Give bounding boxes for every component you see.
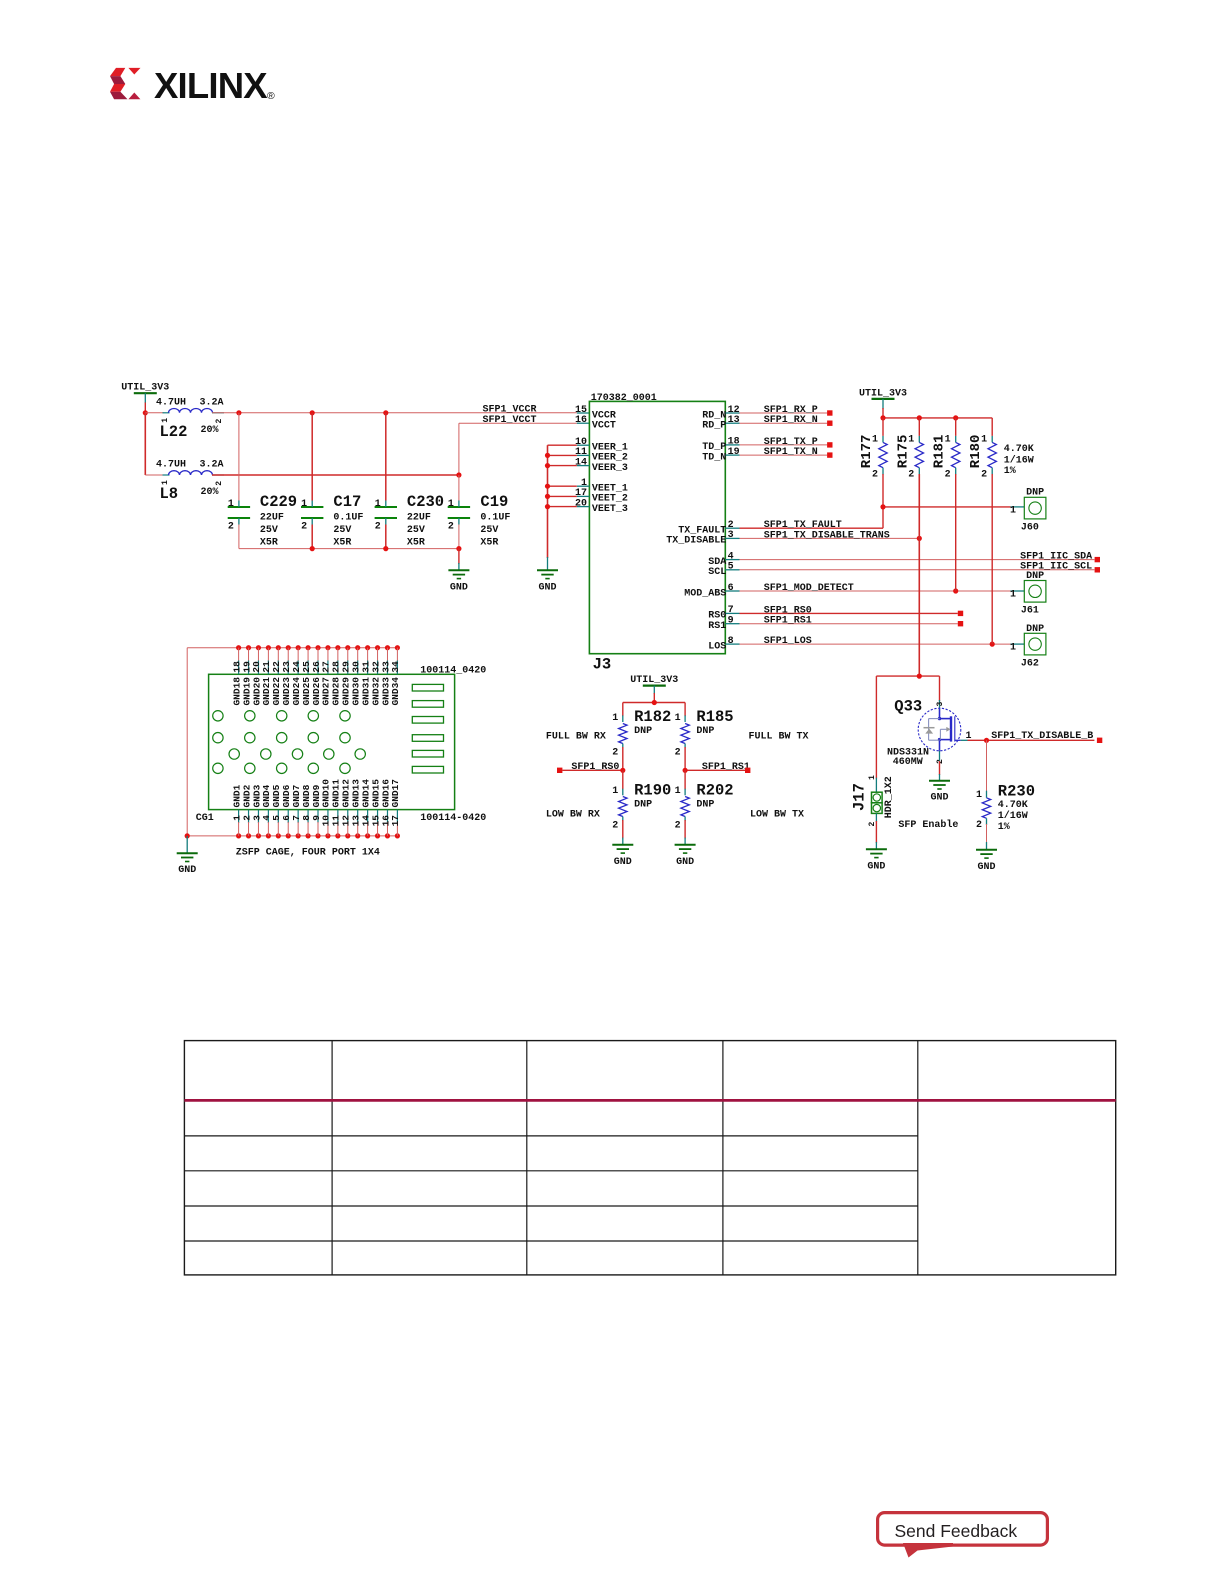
svg-text:J62: J62 [1021,658,1039,669]
wire net SFP1_LOS [740,636,1011,647]
svg-text:HDR_1X2: HDR_1X2 [884,776,895,818]
svg-text:2: 2 [675,821,681,832]
inductor L22 [145,398,224,442]
resistor R177 [859,418,887,481]
connector J62 (DNP) [1010,624,1046,669]
svg-text:CG1: CG1 [196,813,214,824]
svg-text:1: 1 [675,786,681,797]
svg-text:16: 16 [575,415,587,426]
wire capacitor ground bus [239,548,459,550]
resistor R190 [612,782,671,832]
svg-text:1: 1 [1010,643,1016,654]
svg-text:1: 1 [976,790,982,801]
svg-text:XILINX: XILINX [154,65,268,106]
wire UTIL_3V3 stem [144,393,146,413]
svg-text:1: 1 [675,713,681,724]
svg-text:5: 5 [728,562,734,573]
wire J17 pin2 to gnd [875,813,877,849]
svg-text:1: 1 [301,499,307,510]
svg-text:R202: R202 [696,782,733,800]
svg-text:9: 9 [728,616,734,627]
label LOW BW RX [546,809,600,820]
svg-text:R182: R182 [634,708,671,726]
Send Feedback button [878,1513,1048,1558]
svg-text:GND34: GND34 [390,677,401,706]
CG1 rear slots [412,684,443,773]
svg-text:GND: GND [614,857,632,868]
svg-text:TX_DISABLE: TX_DISABLE [666,536,726,547]
svg-text:SFP1_RS0: SFP1_RS0 [571,762,619,773]
junction RS0/R182/R190 [620,768,625,773]
connector J61 (DNP) [1010,571,1046,616]
svg-text:RD_P: RD_P [702,421,726,432]
svg-text:25V: 25V [333,525,351,536]
resistor R180 [968,418,996,481]
svg-text:SFP Enable: SFP Enable [898,819,958,831]
table [184,1041,1115,1275]
wire R202 to gnd [684,817,686,846]
svg-text:2: 2 [448,522,454,533]
svg-text:20%: 20% [201,425,219,436]
svg-text:1: 1 [161,418,170,423]
junction CG1 gnd left [185,833,190,838]
J3 pin 10 (VEER_1) [575,437,628,454]
wire R175 to Q33/J17 bus [876,675,939,677]
svg-text:13: 13 [728,415,740,426]
resistor R185 [675,708,734,758]
terminal SFP1_TX_DISABLE_B [1097,738,1102,743]
wire C19 branch [458,475,460,549]
J3 pin 6 (MOD_ABS) [684,583,739,600]
resistor pullup value label [1004,444,1034,477]
connector CG1 (ZSFP cage) body [196,665,486,858]
J3 pin 3 (TX_DISABLE) [666,530,739,547]
svg-text:C230: C230 [407,493,444,511]
wire pullup top bus [883,417,992,419]
J3 pin 16 (VCCT) [575,415,616,432]
svg-text:1%: 1% [998,822,1010,833]
svg-text:SFP1_RS1: SFP1_RS1 [702,762,750,773]
wire UTIL_3V3 vertical to L8 [144,413,146,475]
junction C17 gnd [310,546,315,551]
junction C19 gnd [456,546,461,551]
ground (Q33 source) [929,781,950,804]
junction TX_DISABLE_B/R230 [984,738,989,743]
junction VEER/VEET rail [545,494,550,499]
svg-text:GND: GND [450,582,468,593]
svg-text:DNP: DNP [634,799,652,810]
resistor R230 [976,740,1035,850]
junction VEER/VEET rail [545,484,550,489]
svg-text:FULL BW TX: FULL BW TX [749,731,809,742]
J3 pin 2 (TX_FAULT) [678,520,739,537]
svg-text:1: 1 [375,499,381,510]
resistor R175 [895,418,923,481]
power symbol UTIL_3V3 (input) [121,383,169,394]
svg-text:22UF: 22UF [260,512,284,523]
svg-text:34: 34 [390,661,401,673]
svg-text:DNP: DNP [1026,624,1044,635]
CG1 bottom pins 1-17 [231,810,401,839]
svg-text:GND: GND [867,861,885,872]
svg-text:2: 2 [612,748,618,759]
terminal SFP1_TX_N [827,452,832,457]
junction bus/R177 [880,415,885,420]
ground (R230) [976,850,997,873]
svg-text:1: 1 [161,480,170,485]
wire net SFP1_TX_P [740,437,828,448]
svg-text:170382_0001: 170382_0001 [591,393,657,404]
terminal SFP1_IIC_SCL [1095,567,1100,572]
junction C230 gnd [383,546,388,551]
J3 pin 9 (RS1) [708,616,739,633]
wire RS1 to R202 [684,770,686,795]
svg-text:3.2A: 3.2A [200,460,224,471]
J3 pin 19 (TD_N) [702,447,739,464]
junction VEER/VEET rail [545,504,550,509]
wire BW top bus [623,703,685,723]
svg-text:100114_0420: 100114_0420 [420,665,486,676]
svg-text:X5R: X5R [333,537,351,548]
wire Q33 source to gnd [939,751,941,781]
wire R182 to RS0 [622,744,624,771]
svg-text:20%: 20% [201,487,219,498]
svg-text:2: 2 [215,419,224,424]
svg-text:GND: GND [538,582,556,593]
junction RS1/R185/R202 [683,768,688,773]
svg-text:C17: C17 [333,493,361,511]
wire net SFP1_RS1 (J3) [740,616,958,627]
wire R181 lower [955,474,957,591]
wire J17 pin1 [875,676,877,792]
ground (R202) [675,845,696,868]
svg-text:19: 19 [728,447,740,458]
wire CG1 bottom ground bus [187,835,397,837]
svg-text:6: 6 [728,583,734,594]
svg-text:2: 2 [675,748,681,759]
CG1 vent holes [213,711,366,774]
svg-text:2: 2 [375,522,381,533]
wire net SFP1_RS1 (BW) [685,762,750,773]
J3 pin 14 (VEER_3) [575,457,628,474]
svg-text:DNP: DNP [696,726,714,737]
J3 pin 5 (SCL) [708,562,739,579]
svg-text:25V: 25V [260,525,278,536]
J3 pin 1 (VEET_1) [577,478,628,495]
terminal SFP1_RS1 [958,621,963,626]
junction C229 tap [236,410,241,415]
svg-text:VEET_3: VEET_3 [592,504,628,515]
svg-text:8: 8 [728,636,734,647]
wire net SFP1_IIC_SDA [740,552,1095,563]
wire RS0 to R190 [622,770,624,795]
ground (capacitor bank) [448,570,469,593]
wire net SFP1_RX_N [740,415,828,426]
svg-text:25V: 25V [407,525,425,536]
svg-text:2: 2 [215,481,224,486]
junction MOD_DETECT / R181 [953,588,958,593]
svg-text:1/16W: 1/16W [1004,454,1034,466]
wire UTIL_3V3 BW stem [653,686,655,703]
capacitor C17 [301,493,363,548]
svg-text:1: 1 [1010,589,1016,600]
wire C230 branch [385,413,387,549]
capacitor C230 [375,493,445,548]
resistor R181 [932,418,960,481]
label LOW BW TX [750,809,804,820]
Xilinx logo [110,68,141,99]
wire Q33 drain [939,676,941,708]
terminal SFP1_RS0 (BW) [557,768,562,773]
wire net SFP1_MOD_DETECT [740,583,1011,594]
junction LOS / R180 [990,642,995,647]
wire R180 lower [991,474,993,644]
svg-text:4.7UH: 4.7UH [156,460,186,471]
svg-text:R177: R177 [859,435,875,469]
terminal SFP1_RX_N [827,421,832,426]
svg-text:2: 2 [936,759,945,764]
resistor R202 [675,782,734,832]
svg-text:UTIL_3V3: UTIL_3V3 [121,383,169,394]
svg-text:DNP: DNP [1026,571,1044,582]
svg-text:J61: J61 [1021,606,1039,617]
terminal SFP1_TX_P [827,442,832,447]
CG1 top pins 18-34 [231,645,401,674]
svg-text:1%: 1% [1004,466,1016,477]
svg-text:2: 2 [872,470,878,481]
svg-text:2: 2 [868,822,877,827]
svg-text:2: 2 [228,522,234,533]
svg-text:VCCT: VCCT [592,421,616,432]
svg-text:C19: C19 [480,493,508,511]
svg-text:DNP: DNP [634,726,652,737]
connector J60 (DNP) [1010,487,1046,533]
svg-text:1: 1 [448,499,454,510]
svg-text:DNP: DNP [696,799,714,810]
ground (J3 VEER/VEET) [537,570,558,593]
svg-text:X5R: X5R [260,537,278,548]
svg-text:1: 1 [612,713,618,724]
svg-text:®: ® [267,90,275,102]
svg-text:X5R: X5R [480,537,498,548]
svg-text:L8: L8 [160,485,179,503]
wire CG1 gnd stub [186,836,188,853]
svg-text:J60: J60 [1021,523,1039,534]
svg-text:3.2A: 3.2A [200,398,224,409]
svg-text:SFP1_LOS: SFP1_LOS [764,636,812,647]
svg-text:GND: GND [676,857,694,868]
label SFP Enable [898,819,958,831]
svg-text:C229: C229 [260,493,297,511]
svg-text:R175: R175 [895,435,911,469]
svg-text:MOD_ABS: MOD_ABS [684,588,726,599]
J3 pin 11 (VEER_2) [575,447,628,464]
junction VCCT / L8 / C19 [456,472,461,477]
Xilinx wordmark [154,65,275,106]
wire UTIL_3V3 pullup stem [882,399,884,418]
svg-text:460MW: 460MW [893,757,923,768]
label FULL BW RX [546,731,606,742]
svg-text:1/16W: 1/16W [998,810,1028,822]
svg-text:3: 3 [936,702,945,707]
J3 pin 13 (RD_P) [702,415,739,432]
svg-text:2: 2 [612,821,618,832]
svg-text:ZSFP CAGE, FOUR PORT 1X4: ZSFP CAGE, FOUR PORT 1X4 [236,848,380,859]
svg-text:R180: R180 [968,435,984,469]
svg-text:GND17: GND17 [390,779,401,808]
wire gnd stub (cap bus) [458,549,460,570]
svg-text:DNP: DNP [1026,487,1044,498]
svg-text:3: 3 [728,530,734,541]
svg-text:R230: R230 [998,782,1035,800]
junction (UTIL_3V3 / L22 / L8) [143,410,148,415]
svg-text:20: 20 [575,498,587,509]
J3 pin 18 (TD_P) [702,437,739,454]
wire R185 to RS1 [684,744,686,771]
svg-text:GND: GND [178,865,196,876]
wire R177 to J60 [883,474,1011,507]
wire net SFP1_TX_N [740,447,828,458]
svg-text:SFP1_RS1: SFP1_RS1 [764,616,812,627]
svg-text:R181: R181 [932,435,948,469]
wire R175 lower [918,474,920,676]
J3 pin 17 (VEET_2) [575,488,628,505]
inductor L8 [145,460,224,504]
wire net SFP1_TX_FAULT [740,507,884,531]
CG1 top pin names GND18-GND34 [231,677,401,706]
svg-text:4.70K: 4.70K [1004,444,1034,455]
junction VEER/VEET rail [545,463,550,468]
wire net SFP1_RS0 (J3) [740,605,958,616]
svg-text:4.7UH: 4.7UH [156,398,186,409]
terminal SFP1_RS1 (BW) [745,768,750,773]
resistor R182 [612,708,671,758]
svg-text:SCL: SCL [708,567,726,578]
svg-text:SFP1_RX_N: SFP1_RX_N [764,415,818,426]
svg-text:R190: R190 [634,782,671,800]
svg-text:0.1UF: 0.1UF [480,512,510,523]
svg-text:VEER_3: VEER_3 [592,463,628,474]
svg-text:SFP1_TX_DISABLE_TRANS: SFP1_TX_DISABLE_TRANS [764,530,890,541]
svg-text:2: 2 [301,522,307,533]
capacitor C19 [448,493,511,548]
svg-text:TD_N: TD_N [702,452,726,463]
svg-text:1: 1 [228,499,234,510]
label FULL BW TX [749,731,809,742]
wire net SFP1_RX_P [740,405,828,416]
svg-text:R185: R185 [696,708,733,726]
J3 pin 12 (RD_N) [702,405,739,422]
terminal SFP1_RS0 [958,611,963,616]
wire C17 branch [311,413,313,549]
junction TX_DISABLE_TRANS / R175 [917,536,922,541]
J3 pin 4 (SDA) [708,551,739,568]
junction bus/R175 [917,415,922,420]
junction bus/R181 [953,415,958,420]
junction C17 tap [310,410,315,415]
svg-text:GND: GND [977,862,995,873]
svg-text:SFP1_TX_DISABLE_B: SFP1_TX_DISABLE_B [991,731,1093,742]
svg-text:LOW BW RX: LOW BW RX [546,809,600,820]
wire net SFP1_IIC_SCL [740,562,1095,573]
svg-text:1: 1 [868,775,877,780]
connector J3 (170382_0001) body [589,393,725,673]
svg-text:0.1UF: 0.1UF [333,512,363,523]
svg-text:100114-0420: 100114-0420 [420,813,486,824]
power symbol UTIL_3V3 (pullups) [859,388,907,399]
svg-text:1: 1 [1010,505,1016,516]
svg-text:2: 2 [976,820,982,831]
ground (R190) [612,845,633,868]
svg-text:GND: GND [930,793,948,804]
svg-text:LOW BW TX: LOW BW TX [750,809,804,820]
wire C229 branch [238,413,240,549]
wire R190 to gnd [622,817,624,846]
svg-text:RS1: RS1 [708,621,726,632]
svg-text:LOS: LOS [708,641,726,652]
svg-text:2: 2 [908,470,914,481]
svg-text:Q33: Q33 [894,697,922,715]
capacitor C229 [228,493,297,548]
svg-text:SFP1_VCCT: SFP1_VCCT [482,415,536,426]
svg-text:17: 17 [390,815,401,827]
svg-text:2: 2 [981,470,987,481]
svg-text:1: 1 [612,786,618,797]
wire L8 output (SFP1_VCCT rail) [212,474,459,476]
svg-text:14: 14 [575,457,587,468]
svg-text:25V: 25V [480,525,498,536]
svg-text:X5R: X5R [407,537,425,548]
svg-text:UTIL_3V3: UTIL_3V3 [859,388,907,399]
junction R175/J17/Q33 [917,674,922,679]
svg-text:22UF: 22UF [407,512,431,523]
svg-text:4.70K: 4.70K [998,800,1028,811]
wire net SFP1_VCCR [212,405,589,416]
svg-text:SFP1_TX_N: SFP1_TX_N [764,447,818,458]
junction R177/TX_FAULT/J60 [880,504,885,509]
ground (CG1) [177,853,198,876]
svg-text:2: 2 [945,470,951,481]
svg-text:Send Feedback: Send Feedback [895,1521,1018,1541]
svg-text:FULL BW RX: FULL BW RX [546,731,606,742]
wire CG1 top ground bus [187,648,397,836]
svg-text:J3: J3 [593,656,612,674]
wire net SFP1_TX_DISABLE_TRANS [740,530,920,541]
svg-text:J17: J17 [851,783,869,811]
J3 pin 20 (VEET_3) [575,498,628,515]
CG1 bottom pin names GND1-GND17 [231,779,401,808]
ground (J17) [866,849,887,872]
terminal SFP1_RX_P [827,410,832,415]
svg-text:SFP1_MOD_DETECT: SFP1_MOD_DETECT [764,583,854,594]
svg-text:UTIL_3V3: UTIL_3V3 [630,675,678,686]
wire net SFP1_TX_DISABLE_B [961,731,1095,742]
J3 pin 8 (LOS) [708,636,739,653]
junction C230 tap [383,410,388,415]
svg-text:L22: L22 [160,423,188,441]
junction UTIL_3V3/BW bus [652,700,657,705]
power symbol UTIL_3V3 (BW select) [630,675,678,686]
terminal SFP1_IIC_SDA [1095,557,1100,562]
junction VEER/VEET rail [545,453,550,458]
J3 pin 15 (VCCR) [575,405,616,422]
transistor Q33 (NDS331N MOSFET) [887,697,972,768]
wire VEER/VEET ground rail [548,445,577,570]
connector J17 (HDR_1X2) [851,775,895,827]
wire net SFP1_VCCT [459,415,590,475]
J3 pin 7 (RS0) [708,605,739,622]
wire net SFP1_RS0 (BW) [562,762,622,773]
